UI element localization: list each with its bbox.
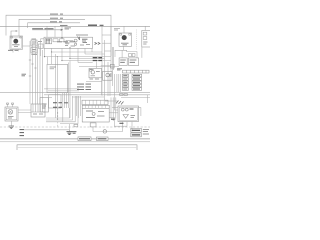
K1 sub box 1 text [46, 39, 51, 41]
bus wire y94.8 [44, 94, 150, 96]
M2 corner terminals [120, 34, 122, 36]
wires right of ECU v1 [110, 97, 112, 118]
junction box J1 [40, 98, 48, 112]
connector R1 text [120, 60, 126, 62]
K1 bottom pin d [69, 48, 71, 58]
bundle wire v4 [37, 42, 39, 104]
C1 top stub square 1 [7, 103, 9, 104]
ground symbol G2 [72, 132, 77, 134]
K1 contact box 3 [60, 39, 65, 42]
grid vertical g8 [67, 63, 69, 109]
M2 wire down [123, 46, 125, 50]
label BR1 text [132, 129, 140, 131]
bottom line label text [79, 138, 90, 140]
fuse col2 row2 [132, 78, 142, 81]
C2 inner shelf [31, 111, 45, 113]
small box right of labels [110, 64, 114, 68]
wire label dashes mid2 [53, 106, 62, 108]
nested corner wire n1 [46, 108, 69, 118]
right bundle vertical r6 [118, 74, 120, 92]
RE supply stub [144, 26, 146, 30]
bus wire y54 [85, 53, 105, 55]
K1 sub box 1 bars [47, 39, 50, 44]
C1 circle cross [9, 110, 12, 113]
bus wire y62.5 [78, 62, 93, 64]
bottom line label box [78, 137, 91, 141]
note text near M2 [114, 29, 120, 30]
dashed separator line [0, 126, 150, 128]
flasher wire right exit [139, 108, 141, 116]
bundle wire v6 [42, 50, 44, 104]
grid vertical g1 [47, 57, 49, 65]
ECU symbol circle [92, 112, 95, 115]
motor M1 rotor [13, 39, 18, 44]
label box BR2 [131, 133, 142, 137]
ECU text 2 [86, 117, 95, 119]
nested corner wire n2 [46, 96, 72, 120]
bundle wire v2 [32, 44, 34, 104]
arrowhead [16, 30, 18, 32]
ladder rung 1 [102, 34, 111, 36]
fuse col1 row3 [122, 81, 128, 84]
grid vertical g2 [51, 52, 53, 64]
right motor M2 box [119, 33, 132, 46]
C2 pin dividers [33, 104, 43, 112]
K1 bottom pin g [91, 48, 93, 52]
connector R2 text [130, 60, 137, 62]
nested corner wire n3 [46, 96, 75, 122]
S1 corner cell [90, 69, 92, 71]
wire under F1 [114, 125, 127, 127]
M1 inner border [11, 37, 21, 48]
F1 wire down 1 [122, 122, 124, 132]
wire label B [50, 17, 63, 19]
K1 caption above [76, 34, 88, 36]
dark wire label row 1 [93, 57, 102, 59]
F1 inner circle b [125, 108, 128, 111]
C1 inner mark [8, 117, 14, 119]
motor M2 rotor [122, 35, 127, 40]
K1 contact box 2 [53, 39, 58, 42]
wire ECU to F1 a [109, 112, 118, 114]
long vertical x111 [110, 26, 112, 71]
C2 lower marks [33, 113, 43, 115]
ECU pin row [82, 107, 109, 109]
K1 inner wire [66, 40, 73, 44]
fuse col2 row1 [132, 74, 142, 77]
module box B [49, 95, 62, 108]
S1 top pin wire [95, 62, 97, 69]
F1 inner border [119, 107, 137, 120]
K1 bottom pin a [44, 48, 46, 56]
text below R1 [117, 69, 122, 70]
wire label D0 text [60, 24, 68, 26]
bottom line label box 2 [97, 137, 109, 141]
J1 top wire [48, 97, 52, 99]
RE sub cell 2 [143, 37, 147, 40]
fuse panel top cell strip [123, 70, 150, 73]
side box 1 mark [32, 42, 36, 44]
motor M2 brush marks [121, 43, 129, 45]
bottom border line 1 [0, 138, 150, 140]
C1 symbol circle [8, 110, 13, 115]
dark wire label row 2 [93, 60, 102, 62]
C1 ground wire [10, 121, 12, 126]
wire label row 2 [77, 86, 91, 88]
note text rows right of callout [65, 28, 72, 29]
fuse col2 row5 [132, 88, 142, 91]
right corner wire [146, 95, 148, 103]
K1 inner dark marks [82, 39, 88, 42]
bundle wire v5 [39, 46, 41, 104]
M2 supply wire [123, 26, 125, 33]
ECU text 3 [97, 112, 105, 117]
C1 inner border [6, 108, 17, 120]
pump pin stub 2 [18, 49, 20, 51]
F1 wire down 3 [131, 122, 133, 132]
fuse col1 row2 [122, 78, 128, 81]
bottom-left connector C1 outer [5, 107, 18, 121]
K1 pin dots [61, 37, 62, 38]
wire label dashes mid3 [64, 102, 68, 104]
tiny cells above R2 [129, 54, 132, 57]
callout underline wire [32, 29, 60, 31]
bus wire y56.6 [45, 56, 112, 58]
wires left of ECU [76, 96, 80, 118]
side box 3 [39, 44, 44, 49]
C1 top stub 1 [7, 104, 9, 107]
wire bus C top [28, 23, 80, 28]
F1 inner circle a [121, 108, 124, 111]
wire into ground [24, 130, 69, 132]
K1 pin wire 3 [61, 26, 63, 37]
K1 coil circle 1 [74, 39, 77, 42]
K1 sub box 1 [45, 39, 52, 44]
M1 corner terminals [11, 37, 13, 38]
fuse col2 text3 [133, 81, 140, 83]
title block inner line [18, 146, 136, 148]
grid vertical g9 [69, 61, 71, 119]
bottom-right flasher unit F1 outer [118, 106, 139, 122]
grid vertical g6 [64, 93, 66, 108]
module box A [47, 64, 68, 92]
right bundle vertical r4 [115, 74, 118, 110]
wire bus D full width [0, 25, 150, 27]
grid vertical g3 [55, 54, 57, 118]
wire bottom right bus [93, 131, 123, 133]
C1 top stub square 2 [12, 103, 14, 104]
RE text [143, 42, 147, 44]
RE lower wire [141, 47, 143, 58]
right bus y97.4 [121, 96, 150, 98]
cable marker dash 3 [20, 135, 25, 137]
bus wire y97 [72, 96, 104, 98]
bus wire y60.5 [62, 60, 111, 62]
wire S1 to small box [101, 65, 111, 67]
fuse col2 text4 [133, 85, 140, 87]
grid vertical g5 [62, 93, 64, 122]
F1 inner marks [131, 116, 136, 118]
grid wire y88.5 [44, 88, 79, 90]
fuse col1 row5 [122, 88, 128, 91]
right bundle vertical r2 [109, 74, 111, 96]
fuse col2 row4 [132, 84, 142, 87]
wire bus B top [19, 19, 85, 36]
ECU box [82, 105, 109, 122]
callout arrowhead [61, 29, 64, 31]
dashed boundary vertical [57, 112, 59, 127]
dotted divider vertical [136, 30, 138, 51]
K1 switch symbol [78, 37, 80, 41]
inline connector circle [103, 130, 106, 133]
tick boxes on bus [120, 94, 123, 96]
wire label D1 dark dash [88, 24, 97, 26]
callout label text [32, 28, 53, 30]
dark dash below F1 [119, 122, 123, 124]
side cluster text [32, 39, 43, 55]
ECU text 1 [86, 110, 93, 112]
S1 inner marks [90, 70, 100, 76]
wire side boxes to K1 [41, 39, 45, 56]
grid wire y91 [48, 90, 79, 92]
K1 pin wire 1 [46, 26, 48, 37]
junction dots on bus [44, 56, 45, 57]
wire bus A top [6, 15, 111, 56]
cable marker dash 2 [20, 132, 25, 134]
wire arrow into pump [11, 31, 18, 36]
wires right of ECU v3 [115, 97, 117, 118]
fuse col2 text2 [133, 78, 140, 80]
K1 bottom pin f [84, 48, 86, 54]
RE sub cell 1 [143, 32, 147, 35]
bus wire y52 [52, 51, 103, 53]
right bundle vertical r1 [107, 62, 109, 96]
switch box S1 [89, 68, 102, 77]
grid vertical g7 [65, 93, 67, 108]
left bus wire y93 [0, 92, 150, 94]
wire y101 [105, 100, 118, 102]
label box BR1 [131, 128, 142, 132]
nested corner wire n4 [60, 96, 78, 124]
K1 coil circle 2 [75, 43, 77, 45]
long vertical x104.5 [104, 40, 106, 100]
J1 text [42, 104, 47, 108]
hatch marks diagonal [116, 101, 124, 105]
fuse col2 text1 [133, 75, 140, 77]
S1 circle [91, 71, 94, 74]
fuse col1 row4 [122, 84, 128, 87]
wire pump to bundle [23, 45, 31, 47]
fuse col1 row1 [122, 74, 128, 77]
wires right of ECU v2 [112, 97, 114, 121]
bus wire y66.4 [79, 65, 119, 67]
wire label dashes mid [53, 102, 62, 104]
K1 pin wire 2 [54, 26, 56, 37]
wire below S1 [86, 80, 102, 82]
S2 circle [106, 73, 109, 76]
side box 2 mark [32, 50, 36, 52]
connector box R2 [129, 58, 139, 66]
pin strip above ECU [82, 100, 108, 104]
small box right of grounds [74, 124, 78, 126]
pump caption text [8, 49, 18, 51]
wire C1 to C2 [18, 110, 31, 113]
F1 wire down 2 [126, 122, 128, 127]
ground wire bottom middle [68, 124, 70, 132]
title block frame [17, 145, 137, 150]
bottom line label 2 text [98, 138, 107, 140]
ladder rung 2 [102, 42, 111, 44]
C1 ground symbol [9, 126, 14, 129]
ladder rung 3 [105, 50, 112, 52]
cable marker dash 1 [20, 129, 25, 131]
M2 wire L left [115, 50, 127, 57]
bottom border line 2 [0, 141, 150, 143]
right bundle vertical r5 [116, 74, 118, 92]
ECU pin dividers [86, 105, 106, 108]
S1 feet marks [90, 78, 100, 80]
switch box S2 [103, 72, 113, 81]
wire ECU to F1 b [109, 118, 114, 127]
bundle side label [22, 74, 27, 76]
K1 bottom pin c [61, 48, 63, 60]
fuse col2 text5 [133, 88, 140, 90]
box A text [50, 67, 56, 69]
R1 wire up [121, 50, 123, 58]
wire label D2 dark dash [100, 24, 104, 26]
long vertical x113.5 [113, 47, 115, 70]
side text right edge [143, 130, 149, 135]
wire label row 3 [77, 89, 91, 91]
bus wire y58.5 [70, 58, 105, 60]
feeder from under-ECU box [92, 127, 94, 132]
wire label A [50, 13, 63, 15]
right bundle vertical r7 [120, 74, 122, 92]
pump pin stub 1 [12, 49, 14, 53]
relay module K1 box [44, 37, 93, 48]
washer pump M1 box [10, 36, 23, 49]
bundle wire v3 [35, 40, 37, 104]
K1 bottom pin e [77, 48, 79, 62]
grid vertical g4 [56, 57, 58, 120]
side boxes left of K1 [31, 40, 37, 46]
vertical bundle wire v1 [29, 41, 31, 104]
S1 drop wire [101, 78, 103, 95]
bottom-left connector C2 [31, 104, 45, 117]
wire label C [50, 21, 62, 23]
label BR2 text [132, 134, 140, 136]
K1 scattered text [65, 43, 90, 46]
flasher wire left entry [112, 107, 118, 109]
long vertical x102 [101, 26, 103, 95]
right edge box RE [142, 31, 151, 48]
right bundle vertical r3 [112, 47, 114, 86]
box under ECU [90, 123, 96, 127]
bundle tick marks [29, 60, 37, 76]
S2 dark mark [110, 74, 112, 76]
fuse col1 texts [123, 76, 127, 89]
dark cable dash [111, 118, 115, 120]
K1 bottom pin b [51, 48, 53, 52]
C1 top stub 2 [12, 104, 14, 107]
F1 dark mark [130, 108, 134, 110]
fuse col2 row3 [132, 81, 142, 84]
motor M1 brush marks [12, 45, 19, 47]
ground symbol G1 [67, 132, 73, 135]
wire label row 1 [77, 83, 91, 85]
F1 triangle symbol [123, 115, 128, 119]
pin strip dividers [86, 100, 105, 104]
M2 wire L right [127, 50, 137, 58]
arrow marks pair [95, 42, 101, 44]
cell strip dividers [127, 70, 147, 73]
connector box R1 [119, 58, 127, 66]
side box 2 [31, 48, 37, 54]
K1 text band [57, 41, 76, 43]
